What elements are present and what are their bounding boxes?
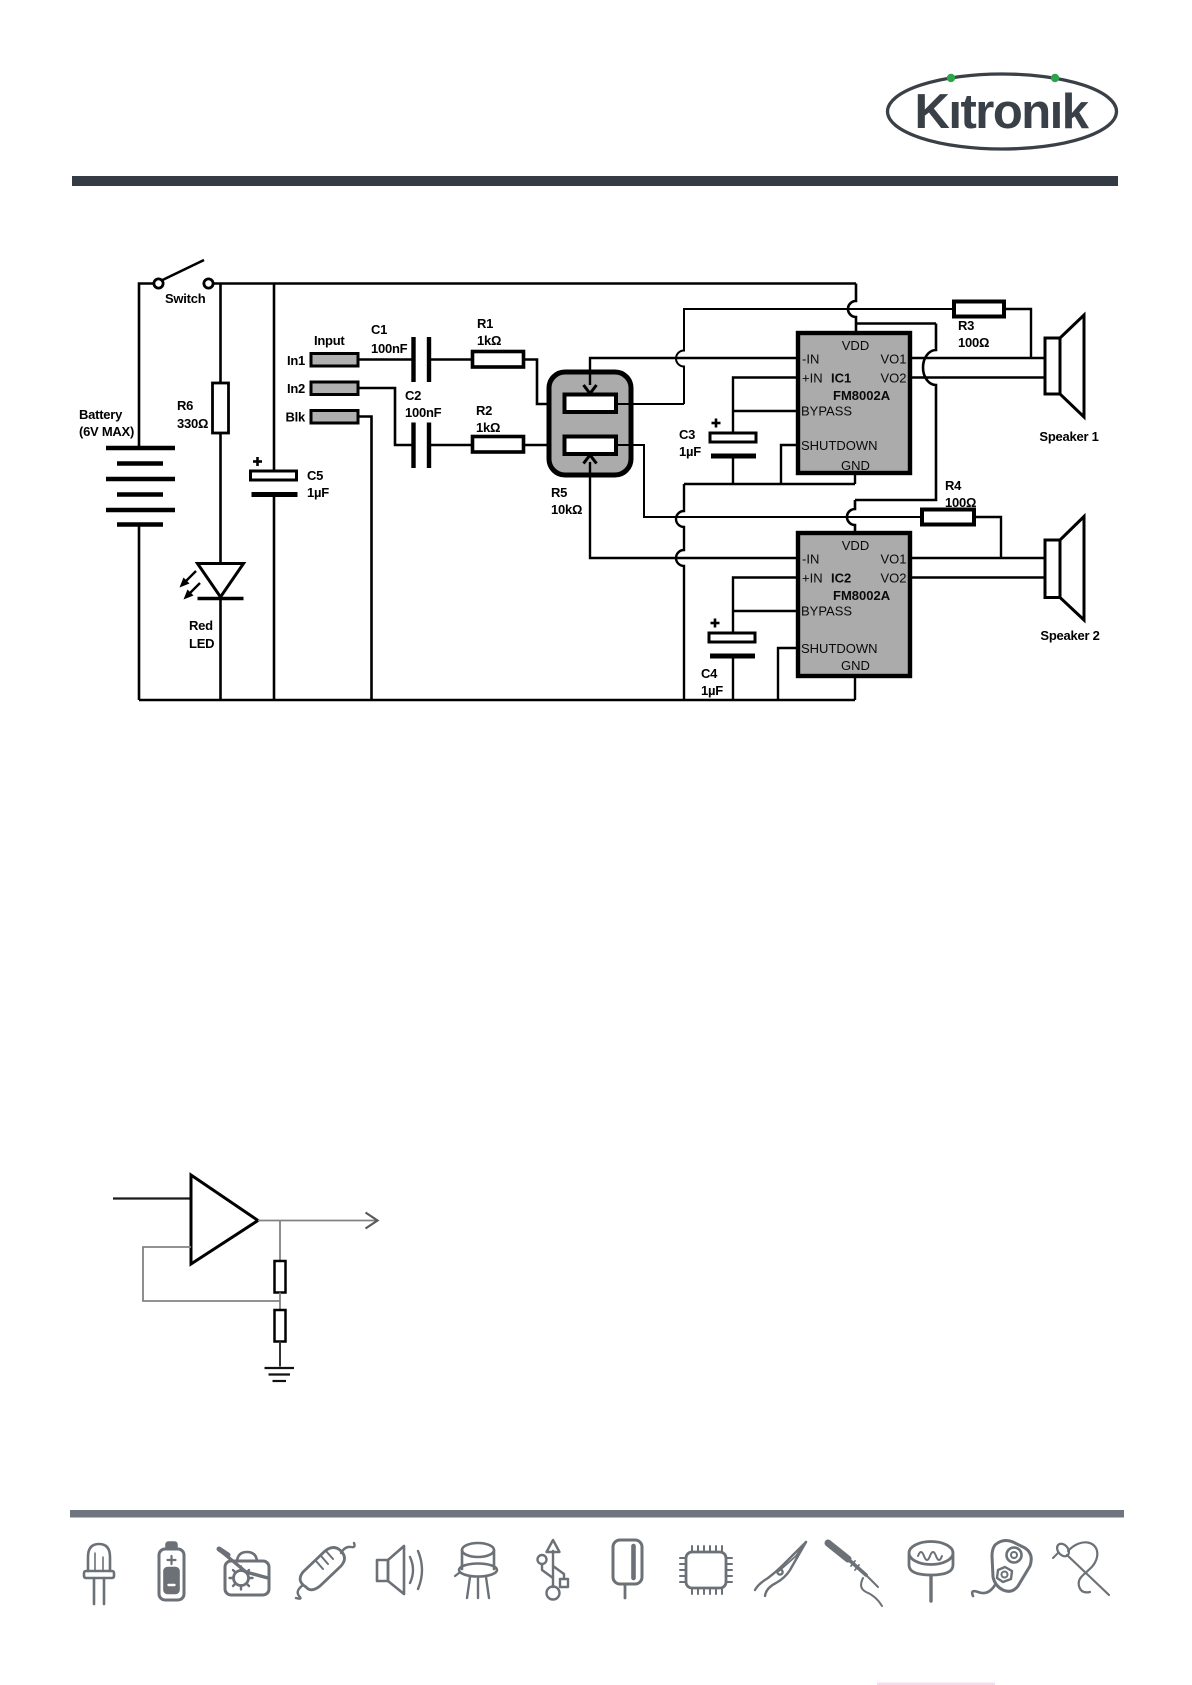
wire C4 to bottom rail (732, 659, 734, 701)
resistor R2 (473, 437, 524, 453)
speaker 2 (1045, 517, 1084, 621)
wire C1 to R1 (431, 358, 472, 361)
wire R2 to pot bottom terminal (524, 444, 566, 447)
resistor R3 (954, 302, 1004, 317)
wire C5 to bottom rail (273, 497, 276, 700)
op-amp U1 triangle (191, 1175, 258, 1264)
resistor R6 (213, 383, 229, 433)
wire Rb to ground (279, 1342, 281, 1367)
IC1 FM8002A body (798, 333, 910, 473)
icon transistor (455, 1543, 497, 1598)
icon needle and thread (1053, 1541, 1109, 1595)
resistor R1 (473, 352, 524, 368)
capacitor C5 (electrolytic) (251, 471, 297, 480)
resistor R4 (922, 510, 974, 525)
battery bottom wire (138, 525, 141, 701)
wire R4 to speaker 2 top (974, 517, 1001, 558)
icon battery snap (972, 1541, 1031, 1596)
input terminal Blk (311, 411, 358, 424)
IC1 ground line (684, 483, 855, 485)
GND riser IC2 to bottom rail (854, 676, 856, 700)
icon LDR (909, 1542, 953, 1602)
wire pot top right terminal to R3 (with hop over -IN wire) (616, 309, 954, 404)
speaker 1 (1045, 315, 1084, 417)
capacitor C4 (electrolytic) (709, 633, 755, 642)
pot R5 top element (565, 395, 617, 413)
switch lever (163, 260, 205, 280)
top header bar (72, 176, 1118, 186)
wire VO1 IC2 to speaker 2 (910, 557, 1045, 559)
capacitor C2 (414, 423, 430, 469)
wire LED to bottom rail (219, 599, 222, 701)
icon soldering iron (828, 1543, 882, 1606)
switch left contact (154, 279, 163, 288)
output arrowhead (366, 1213, 378, 1229)
logo green dot left (947, 74, 955, 82)
wire R6 to LED (219, 433, 222, 564)
icon resistor with twisted leads (296, 1543, 355, 1599)
VDD riser IC1 with hop over R3 line (848, 284, 856, 334)
wire pot bottom wiper to -IN IC2 (590, 462, 798, 558)
battery B1 plates (106, 448, 175, 525)
pot R5 bottom element (565, 437, 617, 455)
wire In2 down to C2 (358, 388, 412, 445)
potentiometer R5 body (549, 372, 631, 475)
feedback wire (143, 1247, 280, 1301)
ground drop to bottom rail (hops over R4 and -IN2 wires) (676, 484, 684, 700)
switch right contact (204, 279, 213, 288)
pot wiper arrowhead bottom (584, 455, 597, 464)
wire C2 to R2 (431, 444, 472, 447)
wire output to divider (279, 1221, 281, 1262)
LED D1 (198, 564, 244, 598)
ground symbol (265, 1368, 295, 1381)
IC2 FM8002A body (798, 533, 910, 676)
LED arrow 1 (180, 571, 201, 600)
Kitronik logo ellipse (888, 74, 1117, 149)
bottom ground rail (139, 699, 855, 702)
wire pot bottom right terminal to R4 (616, 445, 922, 517)
capacitor C3 (electrolytic) (710, 433, 756, 442)
wire SHUTDOWN IC1 to ground line (781, 445, 798, 484)
icon electrolytic capacitor (613, 1540, 642, 1598)
GND riser IC1 (854, 473, 856, 484)
divider resistor Rb (275, 1310, 286, 1342)
logo green dot right (1051, 74, 1059, 82)
LED arrow 2 (188, 583, 200, 595)
icon project box with gear (219, 1549, 269, 1595)
op-amp output wire (258, 1220, 376, 1222)
wire between divider resistors (279, 1293, 281, 1311)
wire In1 to C1 (358, 358, 412, 361)
top rail wire (213, 282, 856, 285)
wire Blk to ground rail (358, 417, 372, 701)
icon USB (538, 1540, 569, 1600)
input terminal In2 (311, 382, 358, 395)
wire VO1 IC1 to speaker 1 (910, 357, 1045, 359)
op-amp input wire (113, 1197, 191, 1199)
wire VO2 IC2 to speaker 2 (910, 576, 1045, 578)
pot wiper arrowhead top (584, 385, 597, 394)
icon speaker (377, 1546, 422, 1594)
C5 riser from rail (273, 284, 276, 472)
wire +IN IC2 to BYPASS and C4 (733, 578, 798, 634)
wire battery top to switch (139, 284, 154, 449)
bottom footer bar (70, 1510, 1124, 1518)
input terminal In1 (311, 354, 358, 367)
footer watermark fragment (877, 1683, 995, 1685)
icon battery (159, 1543, 184, 1601)
wire SHUTDOWN IC2 to bottom rail (778, 648, 798, 700)
wire +IN IC1 to BYPASS and C3 (733, 378, 798, 434)
divider resistor Ra (275, 1261, 286, 1293)
VDD branch to IC2 feed (847, 324, 936, 534)
wire C3 to IC1 ground line (732, 459, 734, 485)
wire R1 to pot top terminal (524, 360, 566, 405)
R6 riser from rail (219, 284, 222, 384)
wire VO2 IC1 to speaker 1 (910, 376, 1045, 378)
wire R3 to speaker 1 top (1004, 309, 1031, 358)
wire pot top wiper to -IN IC1 (590, 358, 798, 385)
icon LED (84, 1544, 114, 1604)
icon pliers (755, 1542, 806, 1596)
icon microcontroller chip (680, 1546, 732, 1594)
capacitor C1 (414, 337, 430, 382)
